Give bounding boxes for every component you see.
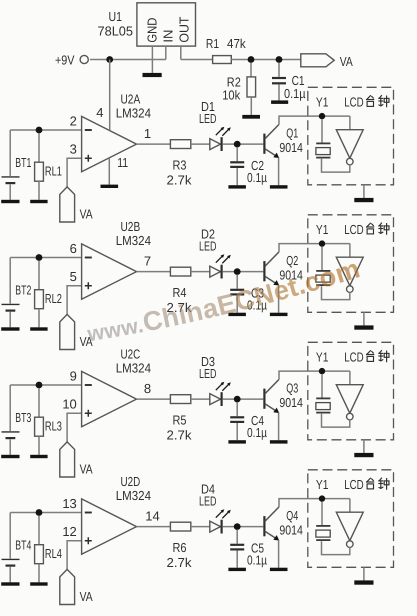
op-amp U2A LM324 [70,91,152,172]
wire emitter to ground [278,540,280,568]
LCD clock module box [308,342,394,440]
svg-text:BT1: BT1 [15,155,31,170]
resistor RL1 [35,133,62,200]
resistor R1 47k [206,36,246,64]
transistor Q4 9014 [264,507,303,541]
wire U1 GND pin [151,46,153,73]
wire non-inverting input [67,286,82,315]
svg-text:Q2: Q2 [286,253,298,268]
svg-text:14: 14 [145,508,159,523]
node C4 tap [234,396,241,403]
wire collector to Y1 [279,244,350,252]
svg-text:LCD: LCD [344,477,364,492]
wire collector to Y1 [279,371,350,379]
svg-text:2: 2 [70,113,77,128]
wire LCD box to ground [363,185,365,198]
op-amp U2B LM324 [70,219,152,299]
svg-text:LCD: LCD [344,94,364,109]
svg-text:1: 1 [144,126,151,141]
svg-text:BT3: BT3 [15,410,31,425]
svg-text:LED: LED [199,494,217,509]
label LCD taizhong [344,222,389,237]
crystal Y1 [316,247,331,285]
node C2 tap [234,141,241,148]
svg-text:4: 4 [96,105,103,120]
node C5 tap [234,523,241,530]
LED D3 [199,354,231,406]
svg-text:VA: VA [340,54,353,69]
capacitor C4 0.1u [230,402,267,440]
svg-text:LED: LED [199,239,217,254]
wire non-inverting input [67,541,82,570]
svg-text:RL1: RL1 [45,164,62,179]
wire emitter to ground [278,158,280,186]
transistor Q1 9014 [264,124,303,158]
wire LED to transistor base [223,526,264,528]
svg-text:OUT: OUT [176,17,191,43]
wire Y1 to inverter input [349,244,351,258]
label LCD taizhong [344,349,389,364]
wire R1 to VA flag [231,59,300,61]
svg-text:U2A: U2A [121,91,141,106]
svg-text:13: 13 [62,496,76,511]
svg-text:LCD: LCD [344,349,364,364]
wire Y1 to inverter input [349,371,351,385]
svg-text:9014: 9014 [279,522,303,537]
node RL4 tap [36,509,43,516]
resistor R3 2.7k [167,140,193,188]
svg-text:R1: R1 [206,36,219,51]
node Y1 [319,240,325,246]
LCD clock module box [308,215,394,312]
ground Q2 emitter [270,313,288,316]
svg-text:BT4: BT4 [15,538,31,553]
capacitor C3 0.1u [230,275,267,313]
wire LED to transistor base [223,143,264,145]
svg-text:0.1µ: 0.1µ [247,170,267,185]
node Y1 [319,113,325,119]
wire Y1 to inverter input [349,499,351,513]
resistor R5 2.7k [167,395,193,443]
node RL1 tap [36,127,43,134]
node Y1 [319,495,325,501]
crystal Y1 [316,502,331,540]
svg-text:Y1: Y1 [316,95,329,110]
wire inverting input rail (U2C) [10,384,81,386]
wire LCD box to ground [363,440,365,453]
wire collector to Y1 [279,499,350,507]
wire inverter output loop [322,286,350,299]
svg-text:78L05: 78L05 [98,23,134,38]
svg-text:Q4: Q4 [286,508,298,523]
svg-text:0.1µ: 0.1µ [247,425,267,440]
svg-text:U2C: U2C [121,346,141,361]
svg-text:2.7k: 2.7k [167,428,193,443]
battery BT1 [2,130,32,200]
transistor Q3 9014 [264,379,303,413]
wire OUT to R1 [181,59,213,61]
battery BT4 [2,513,32,583]
svg-text:GND: GND [145,18,160,43]
wire inverter output loop [322,159,350,172]
resistor RL2 [35,261,62,328]
ground BT2 [1,327,19,330]
node RL2 tap [36,254,43,261]
wire LED to transistor base [223,271,264,273]
ground BT3 [1,455,19,458]
svg-text:0.1µ: 0.1µ [284,86,306,101]
svg-text:Q3: Q3 [286,381,298,396]
svg-text:10: 10 [62,396,76,411]
ground C1 [271,100,288,104]
wire inverting input rail (U2A) [10,129,81,131]
svg-text:5: 5 [70,269,77,284]
svg-text:LCD: LCD [344,222,364,237]
wire inverter output loop [322,541,350,554]
wire collector to Y1 [279,116,350,124]
wire R5 to D3 [191,398,210,400]
ground RL1 [30,200,47,203]
wire non-inverting input [67,413,82,442]
ground C2 [228,185,246,188]
svg-text:LM324: LM324 [116,361,151,376]
transistor Q2 9014 [264,252,303,286]
op-amp U2D LM324 [62,474,159,555]
resistor R2 10k [222,63,255,115]
ground RL2 [30,327,47,330]
svg-text:2.7k: 2.7k [167,555,193,570]
svg-text:2.7k: 2.7k [167,173,193,188]
VA flag (non-inverting input) [60,442,93,477]
svg-text:RL4: RL4 [45,546,62,561]
LCD clock module box [308,87,394,185]
VA flag (non-inverting input) [60,314,93,349]
ground LCD module [354,580,373,584]
wire pin 11 (GND) [108,158,110,185]
svg-text:U2B: U2B [121,219,141,234]
node +9V junction [106,56,113,63]
battery BT2 [2,258,32,328]
ground RL4 [30,582,47,585]
op-amp U2C LM324 [62,346,151,427]
inverter gate (oscillator) [336,385,363,420]
resistor R4 2.7k [167,267,193,315]
svg-text:Y1: Y1 [316,222,329,237]
wire U1 IN pin [165,46,167,59]
ground C5 [228,568,246,571]
ground C3 [228,313,246,316]
svg-text:LM324: LM324 [116,233,151,248]
wire R4 to D2 [191,271,210,273]
capacitor C2 0.1u [230,147,267,185]
resistor R6 2.7k [167,522,193,570]
resistor RL4 [35,516,62,583]
wire op-amp output to R4 [137,271,171,273]
svg-text:9014: 9014 [279,140,303,155]
wire op-amp output to R3 [137,143,171,145]
LED D1 [199,99,231,151]
svg-text:Y1: Y1 [316,350,329,365]
svg-text:LED: LED [199,111,217,126]
wire Y1 to inverter input [349,116,351,130]
VA supply flag (top) [301,54,353,69]
ground pin 11 [101,185,119,188]
wire inverting input rail (U2B) [10,257,81,259]
svg-text:LM324: LM324 [116,106,151,121]
svg-text:Y1: Y1 [316,477,329,492]
svg-text:VA: VA [80,461,93,476]
battery BT3 [2,385,32,455]
ground Q1 emitter [270,185,288,188]
svg-text:10k: 10k [222,87,240,102]
crystal Y1 [316,374,331,412]
wire LCD box to ground [363,312,365,325]
ground LCD module [354,198,373,202]
ground RL3 [30,455,47,458]
VA flag (non-inverting input) [60,569,93,604]
LED D2 [199,227,231,279]
svg-text:RL2: RL2 [45,291,62,306]
svg-text:9014: 9014 [279,395,303,410]
wire non-inverting input [67,158,82,187]
svg-text:3: 3 [70,141,77,156]
svg-text:R4: R4 [173,285,187,300]
svg-text:LM324: LM324 [116,488,151,503]
node R2 tap [248,56,255,63]
ground BT4 [1,582,19,585]
svg-text:12: 12 [62,524,76,539]
ground LCD module [354,325,373,329]
svg-text:47k: 47k [227,36,246,51]
svg-text:BT2: BT2 [15,283,31,298]
wire U1 OUT pin [180,46,182,59]
node C1 tap [276,56,283,63]
svg-text:11: 11 [117,155,128,170]
svg-text:VA: VA [80,589,93,604]
voltage regulator U1 78L05 [98,3,196,46]
resistor RL3 [35,388,62,455]
wire inverter output loop [322,414,350,427]
+9V supply terminal [55,52,88,67]
capacitor C5 0.1u [230,530,267,568]
inverter gate (oscillator) [336,257,363,292]
svg-text:R3: R3 [173,157,187,172]
node C3 tap [234,268,241,275]
svg-text:6: 6 [70,241,77,256]
crystal Y1 [316,119,331,157]
wire R6 to D4 [191,526,210,528]
inverter gate (oscillator) [336,512,363,547]
ground C4 [228,440,246,443]
wire emitter to ground [278,413,280,441]
svg-text:VA: VA [80,206,93,221]
node Y1 [319,368,325,374]
svg-text:Q1: Q1 [286,126,298,141]
VA flag (non-inverting input) [60,187,93,222]
svg-text:7: 7 [144,253,151,268]
svg-text:9: 9 [70,368,77,383]
svg-text:U2D: U2D [121,474,141,489]
wire LED to transistor base [223,398,264,400]
ground R2 [242,115,260,119]
wire emitter to ground [278,285,280,313]
wire op-amp output to R5 [137,398,171,400]
wire LCD box to ground [363,567,365,580]
wire op-amp output to R6 [137,526,171,528]
capacitor C1 0.1u [272,63,306,101]
svg-text:R5: R5 [173,412,187,427]
ground LCD module [354,453,373,457]
svg-text:U1: U1 [109,9,123,24]
svg-text:R6: R6 [173,540,187,555]
ground U1 [143,73,162,77]
svg-text:IN: IN [161,30,176,43]
svg-text:RL3: RL3 [45,419,62,434]
svg-text:+9V: +9V [55,52,75,67]
wire pin 4 (V+) [109,60,111,131]
ground Q4 emitter [270,568,288,571]
svg-text:0.1µ: 0.1µ [247,552,267,567]
node RL3 tap [36,382,43,389]
svg-text:LED: LED [199,366,217,381]
label LCD taizhong [344,477,389,492]
svg-text:8: 8 [144,381,151,396]
ground Q3 emitter [270,440,288,443]
ground BT1 [1,200,19,203]
inverter gate (oscillator) [336,130,363,165]
wire inverting input rail (U2D) [10,512,81,514]
wire R3 to D1 [191,143,210,145]
LCD clock module box [308,470,394,568]
LED D4 [199,482,231,534]
label LCD taizhong [344,94,389,109]
wire +9V rail [90,59,166,61]
